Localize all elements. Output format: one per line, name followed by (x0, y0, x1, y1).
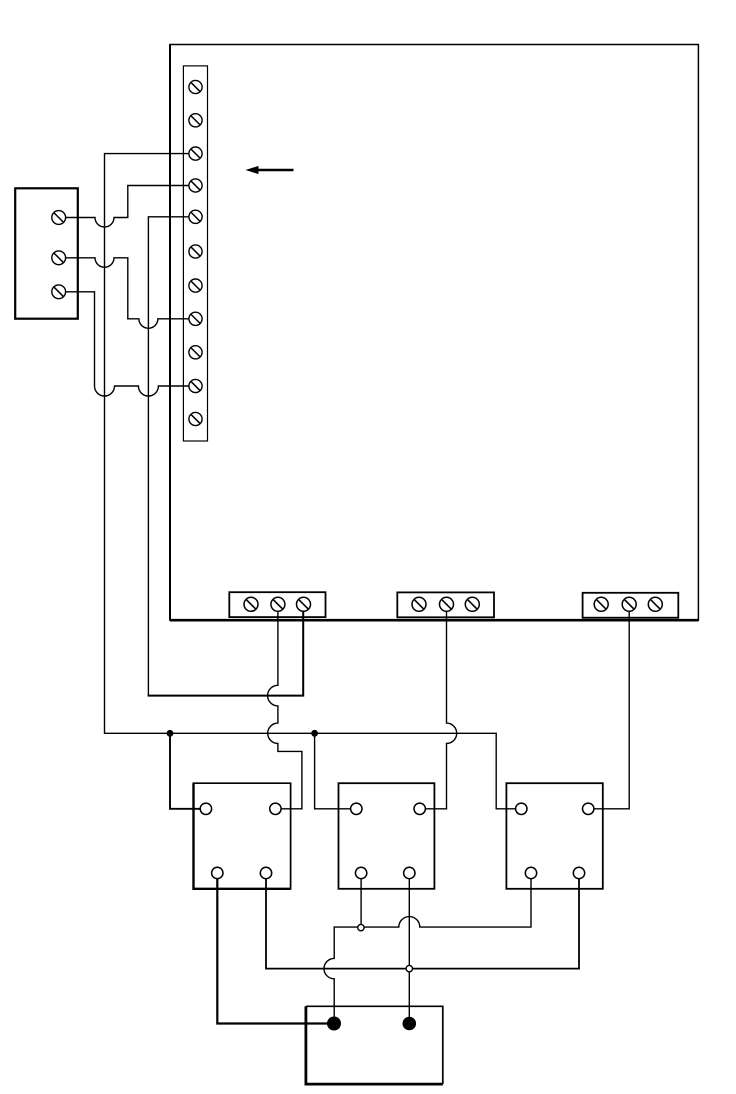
TB2 screw 3 (52, 285, 66, 299)
output block B1 (229, 592, 325, 617)
wire screw1 to terminal 4 (59, 186, 196, 228)
wire relay1 bottom-left to battery positive (217, 873, 333, 1024)
TB1 screw 10 (189, 379, 202, 392)
relay K1 left+bottom border (194, 783, 291, 889)
relay K2 (339, 783, 435, 889)
wire block2 screw2 to relay2 top-right pin (hop over bus) (420, 604, 457, 809)
K1 pin top-left (200, 803, 211, 814)
node dot2 (311, 730, 318, 737)
panel left border (169, 45, 171, 621)
arrow pointing left (246, 166, 294, 174)
K1 pin bottom-left (212, 867, 223, 878)
wire block1 screw2 to relay1 top-right pin (with two hops) (268, 604, 302, 809)
wire relay2 bottom-right to battery negative (408, 873, 410, 1024)
K1 pin bottom-right (260, 867, 271, 878)
TB1 screw 6 (189, 245, 202, 258)
K2 pin bottom-right (404, 867, 415, 878)
panel enclosure U1 (170, 45, 698, 621)
B3 screw 3 (648, 597, 662, 611)
relay K1 (194, 783, 291, 889)
wire node dot1 to relay1 top-left pin (170, 733, 206, 809)
TB1 screw 4 (189, 179, 202, 192)
K1 pin top-right (270, 803, 281, 814)
wire terminal 5 to block1 screw3 lower run (148, 604, 304, 695)
output block B2 (397, 592, 494, 617)
wire relay3 bottom-left bus to battery positive (with hops) (324, 873, 531, 1024)
battery terminal left (filled) (327, 1017, 341, 1031)
K3 pin bottom-left (525, 867, 536, 878)
TB2 screw 1 (52, 211, 66, 225)
node dot1 (167, 730, 174, 737)
TB1 screw 8 (189, 312, 202, 325)
junction circle J1 (358, 924, 364, 930)
TB1 screw 1 (189, 80, 202, 93)
K2 pin bottom-left (355, 867, 366, 878)
wire screw2 to terminal 8 (59, 258, 196, 329)
TB1 screw 2 (189, 114, 202, 127)
B2 screw 2 (440, 597, 454, 611)
wire relay1 bottom-right to relay3 bottom-right (266, 873, 579, 969)
B2 screw 3 (465, 597, 479, 611)
battery box BT1 (306, 1006, 443, 1084)
TB1 screw 3 (189, 147, 202, 160)
TB1 screw 11 (189, 412, 202, 425)
TB1 screw 9 (189, 346, 202, 359)
B1 screw 1 (244, 597, 258, 611)
TB2 screw 2 (52, 251, 66, 265)
K2 pin top-right (414, 803, 425, 814)
B2 screw 1 (412, 597, 426, 611)
B3 screw 1 (594, 597, 608, 611)
wire relay2 bottom-left to junction (360, 873, 362, 927)
wire terminal 3 bus to relay coils (105, 154, 522, 809)
K3 pin bottom-right (573, 867, 584, 878)
wire block3 screw2 to relay3 top-right pin (588, 604, 629, 809)
B1 screw 2 (271, 597, 285, 611)
TB1 screw 5 (189, 210, 202, 223)
left terminal box TB2 (15, 188, 78, 318)
panel bottom border (170, 619, 698, 622)
B3 screw 2 (622, 597, 636, 611)
K2 pin top-left (351, 803, 362, 814)
output block B3 (583, 593, 679, 618)
TB1 screw 7 (189, 279, 202, 292)
K3 pin top-left (516, 803, 527, 814)
junction circle J2 (406, 965, 412, 971)
wire screw3 to terminal 10 (59, 292, 196, 396)
terminal strip TB1 (183, 66, 207, 441)
battery terminal right (filled) (403, 1017, 417, 1031)
wire node dot2 to relay2 top-left pin (315, 733, 357, 809)
wire terminal 5 down leg (148, 217, 195, 696)
relay K3 (506, 783, 602, 889)
B1 screw 3 (297, 597, 311, 611)
battery box left+bottom border (306, 1006, 443, 1084)
K3 pin top-right (583, 803, 594, 814)
